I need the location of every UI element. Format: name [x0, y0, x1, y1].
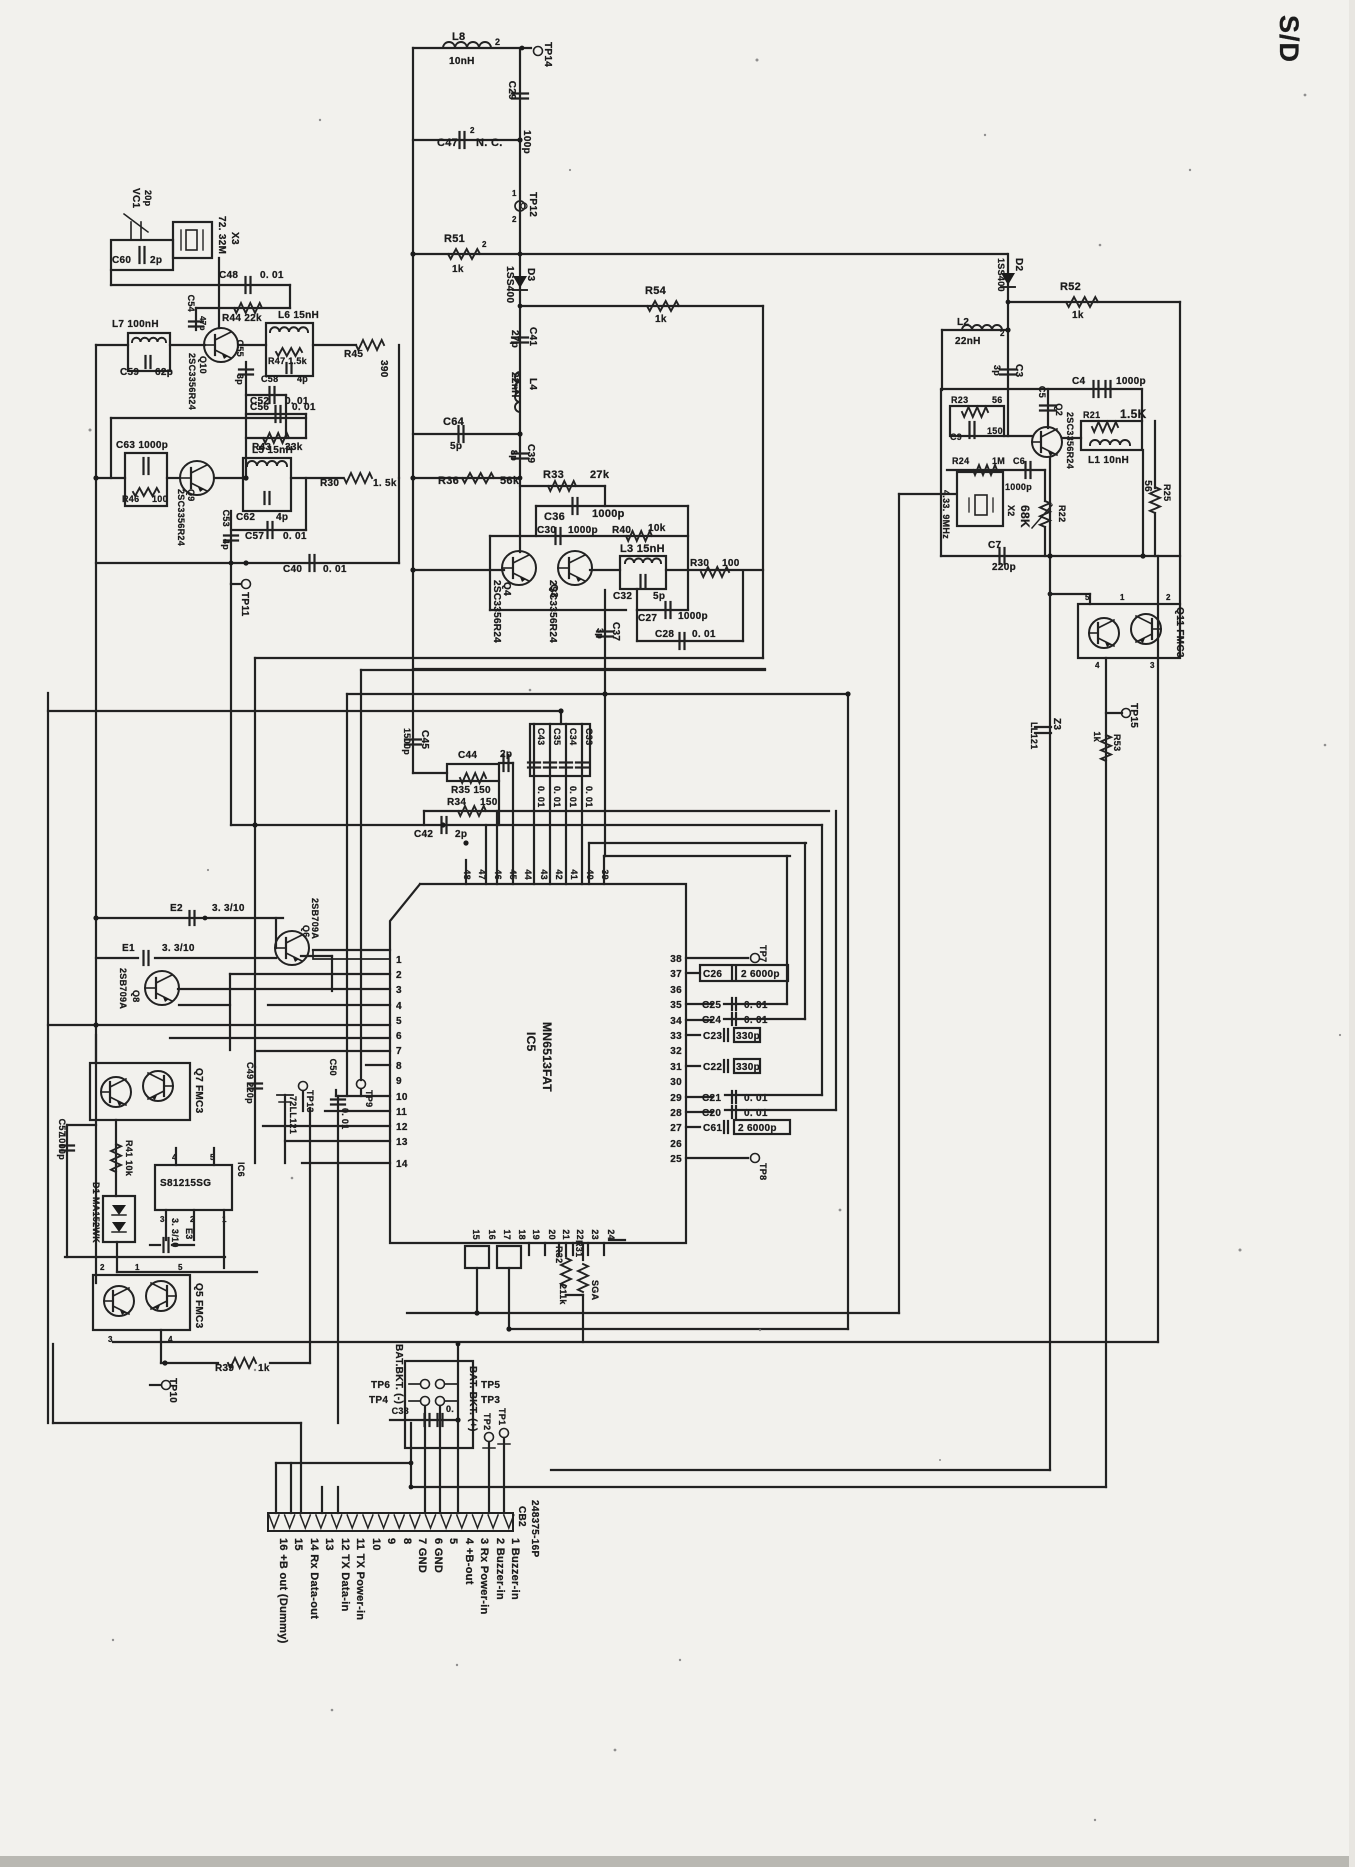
svg-text:C63 1000p: C63 1000p [116, 440, 168, 451]
svg-text:248375-16P: 248375-16P [529, 1500, 540, 1558]
svg-text:TP7: TP7 [758, 945, 768, 962]
svg-text:C49 220p: C49 220p [245, 1062, 255, 1104]
svg-text:2SC3356R24: 2SC3356R24 [176, 489, 186, 546]
svg-text:6 GND: 6 GND [432, 1538, 444, 1573]
svg-text:C24: C24 [702, 1015, 721, 1026]
svg-text:0. 01: 0. 01 [552, 786, 562, 808]
svg-text:37: 37 [670, 969, 682, 980]
svg-text:2p: 2p [455, 829, 467, 840]
svg-text:R47 1.5k: R47 1.5k [268, 356, 308, 366]
svg-text:47p: 47p [198, 316, 207, 331]
svg-text:3p: 3p [595, 628, 605, 639]
svg-text:R30: R30 [690, 558, 709, 569]
svg-text:C28: C28 [655, 629, 674, 640]
svg-text:L8: L8 [452, 31, 465, 43]
svg-text:TP5: TP5 [481, 1380, 500, 1391]
svg-text:2: 2 [512, 215, 517, 224]
svg-text:L1 10nH: L1 10nH [1088, 455, 1129, 466]
svg-text:0. 01: 0. 01 [744, 1000, 768, 1011]
svg-text:4p: 4p [221, 539, 231, 550]
svg-text:C30: C30 [537, 525, 556, 536]
svg-text:L7 100nH: L7 100nH [112, 319, 159, 330]
svg-text:8: 8 [396, 1061, 402, 1072]
svg-text:2SC3356R24: 2SC3356R24 [491, 580, 502, 643]
svg-text:26: 26 [670, 1139, 682, 1150]
svg-text:C6: C6 [1013, 456, 1025, 466]
svg-text:0.: 0. [446, 1404, 454, 1414]
svg-text:72LL121: 72LL121 [288, 1096, 298, 1134]
svg-text:56: 56 [992, 395, 1003, 405]
svg-text:CB2: CB2 [516, 1506, 527, 1527]
svg-text:0. 01: 0. 01 [692, 629, 716, 640]
svg-text:BAT.BKT. (-): BAT.BKT. (-) [393, 1344, 404, 1404]
svg-text:5p: 5p [653, 591, 665, 602]
svg-text:330p: 330p [736, 1031, 760, 1042]
svg-text:3: 3 [396, 985, 402, 996]
svg-text:2: 2 [1166, 593, 1171, 602]
svg-text:X2: X2 [1006, 505, 1016, 517]
svg-text:22: 22 [575, 1229, 585, 1240]
svg-text:IC5: IC5 [524, 1032, 538, 1052]
svg-text:27: 27 [670, 1123, 682, 1134]
svg-text:12 TX Data-in: 12 TX Data-in [339, 1538, 351, 1612]
svg-text:LL121: LL121 [1029, 722, 1039, 750]
svg-text:0. 01: 0. 01 [568, 786, 578, 808]
svg-text:9: 9 [385, 1538, 397, 1544]
svg-text:C22: C22 [703, 1062, 722, 1073]
svg-text:22nH: 22nH [955, 336, 981, 347]
svg-text:C33: C33 [584, 728, 594, 745]
svg-text:C43: C43 [536, 728, 546, 745]
svg-text:21: 21 [561, 1229, 571, 1240]
svg-text:2SC3356R24: 2SC3356R24 [1065, 412, 1075, 469]
svg-text:100: 100 [722, 558, 740, 569]
svg-text:1k: 1k [655, 314, 667, 325]
svg-text:1.5K: 1.5K [1120, 407, 1147, 421]
svg-text:34: 34 [670, 1016, 682, 1027]
svg-text:R31: R31 [574, 1240, 584, 1257]
svg-text:L4: L4 [527, 378, 538, 390]
svg-text:R51: R51 [444, 233, 465, 245]
svg-text:C53: C53 [221, 510, 231, 527]
svg-text:4p: 4p [297, 374, 308, 384]
svg-text:1000p: 1000p [592, 508, 625, 520]
svg-text:31: 31 [670, 1062, 682, 1073]
svg-text:Q7 FMC3: Q7 FMC3 [193, 1068, 204, 1114]
svg-text:C25: C25 [702, 1000, 721, 1011]
svg-text:3p: 3p [235, 374, 245, 385]
svg-text:R34: R34 [447, 797, 466, 808]
svg-text:C59: C59 [120, 367, 139, 378]
svg-text:0. 01: 0. 01 [744, 1015, 768, 1026]
svg-text:1k: 1k [258, 1363, 270, 1374]
svg-text:18: 18 [517, 1229, 527, 1240]
svg-text:R25: R25 [1162, 484, 1172, 501]
svg-text:Q11 FMC3: Q11 FMC3 [1174, 607, 1185, 658]
svg-text:R44 22k: R44 22k [222, 313, 262, 324]
svg-text:Q8: Q8 [131, 990, 141, 1003]
svg-text:1k: 1k [1072, 310, 1084, 321]
svg-text:2p: 2p [500, 749, 512, 760]
svg-text:5p: 5p [450, 441, 462, 452]
svg-text:C50: C50 [328, 1059, 338, 1076]
svg-text:1: 1 [1120, 593, 1125, 602]
svg-text:TP15: TP15 [1128, 703, 1139, 728]
svg-text:C23: C23 [703, 1031, 722, 1042]
svg-text:390: 390 [378, 360, 389, 378]
svg-text:2: 2 [482, 240, 487, 249]
svg-text:13: 13 [323, 1538, 335, 1551]
svg-text:TP11: TP11 [239, 592, 250, 617]
svg-text:C37: C37 [610, 622, 621, 641]
svg-text:0. 01: 0. 01 [340, 1108, 350, 1130]
svg-text:R36: R36 [438, 475, 459, 487]
svg-text:10: 10 [396, 1092, 408, 1103]
svg-text:E2: E2 [170, 903, 183, 914]
svg-text:220p: 220p [992, 562, 1016, 573]
svg-text:3. 3/10: 3. 3/10 [162, 943, 195, 954]
svg-text:0. 01: 0. 01 [536, 786, 546, 808]
svg-text:R41 10k: R41 10k [124, 1140, 134, 1177]
svg-text:TP1: TP1 [497, 1408, 507, 1425]
svg-text:1000p: 1000p [57, 1133, 67, 1160]
svg-text:X3: X3 [229, 232, 240, 245]
svg-text:20: 20 [547, 1229, 557, 1240]
svg-text:C55: C55 [235, 340, 245, 357]
svg-text:2SC3356R24: 2SC3356R24 [547, 580, 558, 643]
svg-text:C5: C5 [1037, 386, 1047, 398]
svg-text:C35: C35 [552, 728, 562, 745]
svg-text:330p: 330p [736, 1062, 760, 1073]
svg-text:Q10: Q10 [198, 356, 208, 374]
svg-text:3: 3 [1150, 661, 1155, 670]
svg-text:27p: 27p [509, 330, 520, 348]
svg-text:3: 3 [160, 1215, 165, 1224]
svg-text:R24: R24 [952, 456, 969, 466]
svg-text:1k: 1k [1092, 731, 1102, 742]
svg-text:4: 4 [396, 1001, 402, 1012]
svg-text:1k: 1k [452, 264, 464, 275]
svg-text:5: 5 [396, 1016, 402, 1027]
svg-text:C45: C45 [419, 730, 430, 749]
svg-text:R46: R46 [122, 494, 139, 504]
svg-text:5: 5 [447, 1538, 459, 1544]
svg-text:2: 2 [470, 126, 475, 135]
svg-text:30: 30 [670, 1077, 682, 1088]
svg-text:16: 16 [487, 1229, 497, 1240]
svg-text:C3: C3 [1013, 364, 1024, 378]
svg-text:N. C.: N. C. [476, 137, 503, 149]
svg-text:R33: R33 [543, 469, 564, 481]
svg-text:13: 13 [396, 1137, 408, 1148]
svg-text:68K: 68K [1018, 505, 1032, 528]
svg-text:C20: C20 [702, 1108, 721, 1119]
svg-text:9: 9 [396, 1076, 402, 1087]
svg-text:1000p: 1000p [568, 525, 598, 536]
svg-text:SGA: SGA [590, 1280, 600, 1301]
svg-text:R40: R40 [612, 525, 631, 536]
svg-text:14: 14 [396, 1159, 408, 1170]
svg-text:32: 32 [670, 1046, 682, 1057]
svg-text:23: 23 [590, 1229, 600, 1240]
svg-text:1M: 1M [992, 456, 1005, 466]
svg-text:5: 5 [178, 1263, 183, 1272]
svg-text:15: 15 [292, 1538, 304, 1551]
svg-text:R39: R39 [215, 1363, 234, 1374]
svg-text:12: 12 [396, 1122, 408, 1133]
svg-text:C7: C7 [988, 540, 1002, 551]
svg-text:C27: C27 [638, 613, 657, 624]
svg-text:41: 41 [569, 869, 579, 880]
svg-text:28: 28 [670, 1108, 682, 1119]
svg-text:R45: R45 [344, 349, 363, 360]
svg-text:E1: E1 [122, 943, 135, 954]
svg-text:56k: 56k [500, 475, 520, 487]
svg-text:IC6: IC6 [236, 1162, 246, 1177]
svg-text:TP8: TP8 [758, 1163, 768, 1180]
svg-text:20p: 20p [143, 190, 153, 207]
svg-text:VC1: VC1 [130, 188, 141, 208]
svg-text:2: 2 [396, 970, 402, 981]
svg-text:C62: C62 [236, 512, 255, 523]
svg-text:1SS400: 1SS400 [504, 266, 515, 304]
svg-text:16 +B out (Dummy): 16 +B out (Dummy) [277, 1538, 289, 1644]
svg-text:17: 17 [502, 1229, 512, 1240]
svg-text:D1 MA152WK: D1 MA152WK [91, 1182, 101, 1243]
svg-text:C44: C44 [458, 750, 477, 761]
svg-text:10k: 10k [648, 523, 666, 534]
svg-text:C56: C56 [250, 402, 269, 413]
svg-text:36: 36 [670, 985, 682, 996]
svg-text:1. 5k: 1. 5k [373, 478, 397, 489]
svg-text:100p: 100p [521, 130, 532, 154]
svg-text:E3: E3 [184, 1228, 194, 1240]
svg-text:C34: C34 [568, 728, 578, 745]
svg-text:1: 1 [396, 955, 402, 966]
svg-text:4: 4 [1095, 661, 1100, 670]
svg-text:3 Rx Power-in: 3 Rx Power-in [478, 1538, 490, 1615]
svg-text:2 6000p: 2 6000p [738, 1123, 777, 1134]
svg-text:11 TX Power-in: 11 TX Power-in [354, 1538, 366, 1620]
svg-text:TP3: TP3 [481, 1395, 500, 1406]
svg-text:4 +B-out: 4 +B-out [463, 1538, 475, 1585]
svg-text:C26: C26 [703, 969, 722, 980]
svg-text:6: 6 [396, 1031, 402, 1042]
svg-text:C61: C61 [703, 1123, 722, 1134]
svg-text:0. 01: 0. 01 [260, 270, 284, 281]
svg-text:R21: R21 [1083, 410, 1100, 420]
svg-text:C57: C57 [245, 531, 264, 542]
svg-text:C29: C29 [506, 81, 517, 100]
svg-text:C40: C40 [283, 564, 302, 575]
svg-text:BAT. BKT. (+): BAT. BKT. (+) [467, 1366, 478, 1432]
svg-text:1: 1 [135, 1263, 140, 1272]
svg-text:27k: 27k [590, 469, 610, 481]
svg-text:C41: C41 [527, 327, 538, 346]
svg-text:S/D: S/D [1274, 15, 1304, 63]
svg-text:R54: R54 [645, 285, 667, 297]
svg-text:62p: 62p [155, 367, 173, 378]
svg-text:8: 8 [401, 1538, 413, 1544]
svg-text:L2: L2 [957, 317, 969, 328]
svg-text:C21: C21 [702, 1093, 721, 1104]
svg-text:1SS400: 1SS400 [996, 258, 1006, 292]
svg-text:TP4: TP4 [369, 1395, 388, 1406]
svg-text:1: 1 [512, 189, 517, 198]
svg-text:C42: C42 [414, 829, 433, 840]
svg-text:C39: C39 [525, 444, 536, 463]
svg-text:2SB709A: 2SB709A [118, 968, 128, 1009]
svg-text:44: 44 [523, 869, 533, 880]
svg-text:38: 38 [670, 954, 682, 965]
svg-text:TP9: TP9 [364, 1090, 374, 1107]
svg-text:TP10: TP10 [167, 1378, 178, 1403]
svg-text:1000p: 1000p [1005, 482, 1032, 492]
svg-text:1 Buzzer-in: 1 Buzzer-in [509, 1538, 521, 1600]
svg-text:2: 2 [100, 1263, 105, 1272]
svg-text:D2: D2 [1013, 258, 1024, 272]
svg-text:19: 19 [531, 1229, 541, 1240]
svg-text:22nH: 22nH [509, 372, 520, 398]
svg-text:4p: 4p [276, 512, 288, 523]
svg-text:100: 100 [152, 494, 168, 504]
svg-text:10nH: 10nH [449, 56, 475, 67]
svg-text:0. 01: 0. 01 [323, 564, 347, 575]
svg-text:2SC3356R24: 2SC3356R24 [187, 353, 197, 410]
svg-text:C64: C64 [443, 416, 465, 428]
svg-text:L3 15nH: L3 15nH [620, 543, 665, 555]
svg-text:35: 35 [670, 1000, 682, 1011]
svg-text:Q6: Q6 [301, 925, 311, 938]
svg-text:R30: R30 [320, 478, 339, 489]
svg-text:7: 7 [396, 1046, 402, 1057]
svg-text:2: 2 [495, 37, 500, 47]
svg-text:L6 15nH: L6 15nH [278, 310, 319, 321]
svg-text:Q5 FMC3: Q5 FMC3 [193, 1283, 204, 1329]
svg-text:33: 33 [670, 1031, 682, 1042]
svg-text:150: 150 [480, 797, 498, 808]
svg-text:0. 01: 0. 01 [292, 402, 316, 413]
svg-text:7 GND: 7 GND [416, 1538, 428, 1573]
svg-text:MN6513FAT: MN6513FAT [540, 1022, 554, 1092]
svg-text:0. 01: 0. 01 [283, 531, 307, 542]
svg-text:0. 01: 0. 01 [584, 786, 594, 808]
svg-text:C58: C58 [261, 374, 278, 384]
svg-text:2: 2 [1000, 329, 1005, 338]
svg-text:C48: C48 [219, 270, 238, 281]
svg-text:1500p: 1500p [402, 728, 412, 755]
svg-text:TP6: TP6 [371, 1380, 390, 1391]
svg-text:R53: R53 [1112, 734, 1122, 751]
svg-text:5: 5 [1085, 593, 1090, 602]
svg-text:TP12: TP12 [527, 192, 538, 217]
svg-text:43: 43 [539, 869, 549, 880]
svg-text:Z3: Z3 [1051, 718, 1062, 730]
svg-text:3p: 3p [992, 365, 1002, 376]
svg-text:R52: R52 [1060, 281, 1081, 293]
svg-text:2 6000p: 2 6000p [741, 969, 780, 980]
svg-text:29: 29 [670, 1093, 682, 1104]
svg-text:TP2: TP2 [482, 1413, 492, 1430]
svg-text:25: 25 [670, 1154, 682, 1165]
svg-text:11: 11 [396, 1107, 407, 1118]
svg-text:R23: R23 [951, 395, 968, 405]
svg-text:C36: C36 [544, 511, 565, 523]
svg-text:2p: 2p [150, 255, 162, 266]
svg-text:2 Buzzer-in: 2 Buzzer-in [494, 1538, 506, 1600]
svg-text:L5 15nH: L5 15nH [252, 445, 293, 456]
svg-text:24: 24 [606, 1229, 616, 1240]
svg-text:3. 3/10: 3. 3/10 [170, 1218, 180, 1248]
svg-text:C9: C9 [950, 432, 962, 442]
svg-text:R22: R22 [1057, 505, 1067, 522]
svg-text:1000p: 1000p [678, 611, 708, 622]
svg-text:Q2: Q2 [1054, 403, 1064, 416]
svg-text:TP13: TP13 [305, 1090, 315, 1113]
svg-text:TP14: TP14 [542, 42, 553, 67]
svg-text:C47: C47 [437, 137, 458, 149]
svg-text:C4: C4 [1072, 376, 1086, 387]
svg-text:C32: C32 [613, 591, 632, 602]
svg-text:C54: C54 [186, 295, 196, 312]
svg-text:4.33. 9MHz: 4.33. 9MHz [941, 490, 951, 539]
svg-text:150: 150 [987, 426, 1003, 436]
svg-text:14 Rx Data-out: 14 Rx Data-out [308, 1538, 320, 1619]
svg-text:15: 15 [471, 1229, 481, 1240]
svg-text:S81215SG: S81215SG [160, 1178, 211, 1189]
svg-text:C38: C38 [392, 1406, 409, 1416]
svg-text:42: 42 [554, 869, 564, 880]
svg-text:Q9: Q9 [186, 489, 196, 502]
svg-text:C60: C60 [112, 255, 131, 266]
svg-text:1000p: 1000p [1116, 376, 1146, 387]
svg-text:8p: 8p [509, 450, 519, 461]
svg-text:72. 32M: 72. 32M [216, 216, 227, 254]
svg-text:R35 150: R35 150 [451, 785, 491, 796]
svg-text:10: 10 [370, 1538, 382, 1551]
svg-text:D3: D3 [525, 268, 536, 282]
svg-text:3. 3/10: 3. 3/10 [212, 903, 245, 914]
